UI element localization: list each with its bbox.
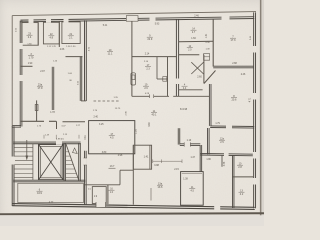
svg-text:1.10: 1.10 (187, 140, 192, 142)
svg-text:1.41: 1.41 (144, 156, 149, 159)
svg-text:1.66: 1.66 (191, 38, 196, 40)
svg-text:2.66: 2.66 (60, 49, 65, 51)
svg-text:1.90: 1.90 (28, 63, 33, 65)
svg-text:1.79: 1.79 (29, 57, 34, 60)
svg-text:3.80: 3.80 (102, 152, 107, 154)
svg-text:3.98: 3.98 (154, 164, 159, 167)
svg-text:1.15: 1.15 (136, 129, 138, 134)
svg-text:13a: 13a (158, 181, 163, 185)
svg-text:4.77: 4.77 (49, 202, 54, 204)
svg-text:3.41: 3.41 (85, 135, 87, 140)
svg-text:4.98: 4.98 (118, 155, 123, 157)
svg-text:2.1: 2.1 (69, 36, 73, 40)
svg-text:1.36 1.30: 1.36 1.30 (66, 46, 76, 48)
svg-text:17.3: 17.3 (231, 38, 237, 42)
svg-text:12a: 12a (220, 137, 225, 140)
svg-text:23a: 23a (38, 82, 43, 86)
svg-text:1.41: 1.41 (206, 33, 208, 38)
svg-text:22.9: 22.9 (147, 37, 153, 41)
svg-text:4.5: 4.5 (110, 136, 114, 140)
svg-text:2.15: 2.15 (174, 169, 179, 171)
svg-text:13.7: 13.7 (110, 165, 115, 168)
svg-text:1.47: 1.47 (190, 157, 195, 159)
svg-text:4.71: 4.71 (250, 97, 252, 102)
svg-text:1.78: 1.78 (50, 112, 55, 114)
svg-text:2.46: 2.46 (194, 16, 199, 18)
svg-text:2.40: 2.40 (93, 117, 98, 119)
svg-text:5.41: 5.41 (103, 25, 108, 27)
svg-text:16.9: 16.9 (37, 192, 42, 195)
svg-text:2.4: 2.4 (28, 35, 32, 39)
svg-text:3.25: 3.25 (99, 124, 104, 126)
svg-text:2.14: 2.14 (145, 53, 150, 55)
svg-text:4.98 dm: 4.98 dm (56, 139, 64, 141)
svg-text:5.93: 5.93 (155, 23, 160, 25)
svg-text:4.40: 4.40 (149, 122, 151, 127)
svg-text:17.9: 17.9 (38, 86, 44, 90)
svg-text:4.8: 4.8 (50, 36, 54, 40)
svg-text:1.79: 1.79 (215, 123, 220, 125)
svg-text:20.6: 20.6 (232, 98, 238, 102)
svg-text:1.80: 1.80 (206, 159, 211, 161)
svg-text:40.1: 40.1 (152, 113, 158, 117)
svg-text:6=2.98: 6=2.98 (180, 109, 188, 111)
svg-text:3.36: 3.36 (224, 161, 226, 166)
svg-text:1.38: 1.38 (183, 179, 188, 181)
svg-text:2.88: 2.88 (232, 63, 237, 65)
svg-text:2.08: 2.08 (125, 111, 127, 116)
svg-text:13.6: 13.6 (158, 185, 164, 189)
svg-text:2.97: 2.97 (40, 71, 45, 73)
svg-text:11.1: 11.1 (108, 52, 113, 56)
svg-text:2.46: 2.46 (241, 74, 246, 76)
svg-text:15.75: 15.75 (115, 108, 121, 110)
svg-text:1.11 1.76: 1.11 1.76 (47, 46, 57, 48)
svg-text:2.60: 2.60 (197, 77, 202, 79)
